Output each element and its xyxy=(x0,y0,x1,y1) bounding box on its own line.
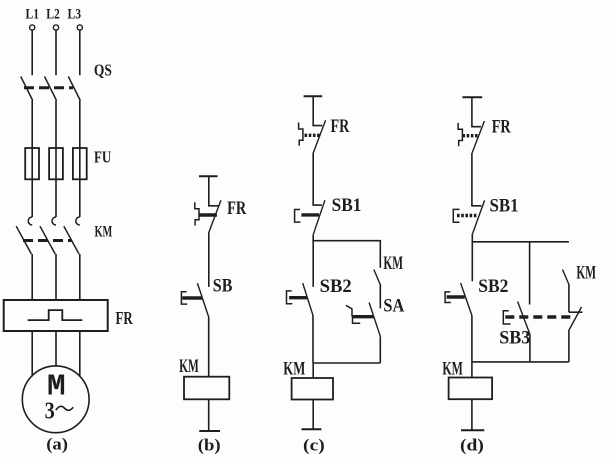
contact FR (c) thermal crank xyxy=(299,123,303,146)
wire L2 top xyxy=(55,30,57,75)
wire (d) right branch lower xyxy=(568,331,570,362)
wire L2 mid xyxy=(55,101,57,218)
button SB2 (c) head xyxy=(287,291,293,304)
switch SA (c) lever stem xyxy=(351,308,353,316)
button SB (b) actuator bar xyxy=(182,296,202,299)
wire (d) top xyxy=(471,97,473,126)
svg-text:KM: KM xyxy=(383,253,403,274)
svg-text:FR: FR xyxy=(331,115,350,137)
thermal relay FR heater symbol xyxy=(28,310,83,320)
wire (d) junction to coil xyxy=(471,362,473,378)
switch QS pole 1 blade xyxy=(21,76,33,100)
switch SA (c) blade xyxy=(369,303,380,337)
contact FR (b) blade xyxy=(209,200,221,232)
button SB1 (d) head xyxy=(453,209,459,222)
svg-text:SB3: SB3 xyxy=(499,327,530,349)
wire (b) bottom xyxy=(208,399,210,431)
svg-text:(a): (a) xyxy=(46,434,68,454)
wire (d) left branch upper xyxy=(471,242,473,281)
contact FR (b) fixed terminal foot xyxy=(209,204,219,206)
svg-text:KM: KM xyxy=(95,223,113,241)
button SB1 (d) fixed terminal foot xyxy=(472,204,482,206)
button SB2 (d) head xyxy=(445,292,451,303)
contact FR (c) fixed terminal foot xyxy=(313,124,322,126)
wire (d) junction bottom horizontal xyxy=(472,361,569,363)
wire L1 mid xyxy=(31,101,33,218)
svg-text:SB1: SB1 xyxy=(332,194,362,215)
contact KM aux (d) blade xyxy=(563,270,569,284)
svg-text:(d): (d) xyxy=(460,436,484,455)
button SB1 (c) blade xyxy=(313,200,325,235)
wire L1 lower xyxy=(31,254,33,300)
wire (d) middle branch lower xyxy=(529,334,531,362)
contact FR (d) actuator bar xyxy=(462,134,478,137)
button SB3 (d) blade xyxy=(518,302,530,335)
wire (c) bottom xyxy=(312,400,314,430)
wire (d) left branch lower xyxy=(471,316,473,362)
contact FR (c) blade xyxy=(313,120,325,152)
motor tilde xyxy=(56,406,73,410)
contactor KM pole 3 fixed contact arc xyxy=(76,217,80,225)
wire (c) junction bottom horizontal xyxy=(313,362,380,364)
coil KM (c) xyxy=(292,378,333,400)
node bottom terminal (d) xyxy=(461,429,484,431)
svg-text:(b): (b) xyxy=(198,435,221,455)
thermal relay FR box xyxy=(4,300,108,331)
node bottom terminal (c) xyxy=(302,428,322,430)
svg-text:FR: FR xyxy=(492,115,511,137)
wire (b) lower xyxy=(208,317,210,377)
wire to motor 1 xyxy=(31,331,33,377)
wire L3 mid xyxy=(79,101,81,218)
button SB2 (d) actuator bar xyxy=(447,295,465,298)
contact FR (c) actuator bar xyxy=(305,134,321,137)
contact FR (b) thermal crank xyxy=(195,202,199,225)
contact FR (d) fixed terminal foot xyxy=(472,125,481,127)
coil KM (b) xyxy=(184,377,229,400)
button SB2 (d) blade xyxy=(461,283,472,316)
svg-text:SB1: SB1 xyxy=(490,194,519,215)
contactor KM pole 1 blade xyxy=(16,226,31,254)
terminal L3 xyxy=(77,25,82,30)
switch SA (c) actuator bar xyxy=(353,315,374,318)
wire (c) junction top horizontal xyxy=(313,241,380,268)
switch QS pole 2 blade xyxy=(45,76,57,100)
contact SB3-NC (d) fixed terminal foot xyxy=(569,311,583,313)
contactor KM pole 2 fixed contact arc xyxy=(52,217,56,225)
fuse FU 3 xyxy=(73,148,87,179)
wire (c) top xyxy=(312,96,314,125)
contactor KM pole 2 blade xyxy=(40,226,55,254)
button SB3 (d) head xyxy=(503,311,510,324)
contact SB3-NC (d) blade xyxy=(569,307,582,331)
contactor KM linkage dashed xyxy=(23,239,72,242)
svg-text:KM: KM xyxy=(576,263,596,284)
terminal L2 xyxy=(53,25,58,30)
svg-text:L1: L1 xyxy=(26,5,40,22)
svg-text:FU: FU xyxy=(94,149,111,167)
wire (c) junction to coil xyxy=(312,363,314,378)
contactor KM pole 1 fixed contact arc xyxy=(28,217,32,225)
button SB1 (d) actuator bar xyxy=(457,214,477,217)
fuse FU 2 xyxy=(49,148,63,179)
node top terminal (c) xyxy=(304,95,323,97)
contactor KM pole 3 blade xyxy=(64,226,79,254)
button SB2 (c) blade xyxy=(303,283,313,315)
wire (d) junction top horizontal xyxy=(472,241,569,243)
wire (c) left branch lower xyxy=(312,316,314,364)
svg-text:L2: L2 xyxy=(46,5,60,22)
button SB (b) head xyxy=(181,292,187,304)
wire to motor 2 xyxy=(55,331,57,366)
contact FR (d) blade xyxy=(472,121,484,153)
switch QS linkage dashed xyxy=(24,86,73,89)
svg-text:QS: QS xyxy=(94,61,112,80)
wire (d) FR to SB1 xyxy=(471,153,473,205)
wire (d) bottom xyxy=(471,399,473,430)
svg-text:3: 3 xyxy=(45,397,55,424)
wire (b) middle xyxy=(208,233,210,287)
switch SA (c) lower hook xyxy=(353,317,361,324)
wire (c) SB1 to junction xyxy=(312,235,314,242)
svg-text:SB2: SB2 xyxy=(478,275,508,296)
wire (d) middle branch upper xyxy=(529,242,531,305)
contact FR (b) actuator bar xyxy=(199,213,217,216)
wire (b) top xyxy=(208,176,210,205)
svg-text:KM: KM xyxy=(283,357,305,379)
node bottom terminal (b) xyxy=(199,430,220,432)
wire (c) right branch between KM and SA xyxy=(379,284,381,309)
switch QS pole 3 blade xyxy=(68,76,80,100)
wire (c) right branch lower xyxy=(379,336,381,363)
button SB2 (c) actuator bar xyxy=(289,296,307,299)
button SB1 (c) fixed terminal foot xyxy=(313,204,322,206)
wire (c) left branch upper xyxy=(312,241,314,287)
svg-text:FR: FR xyxy=(227,197,247,219)
svg-text:KM: KM xyxy=(179,356,199,377)
contact FR (d) thermal crank xyxy=(458,123,462,146)
wire L3 lower xyxy=(79,254,81,300)
motor M circle xyxy=(22,366,89,433)
button SB1 (c) actuator bar xyxy=(301,213,319,216)
wire to motor 3 xyxy=(79,331,81,377)
node top terminal (b) xyxy=(199,175,218,177)
terminal L1 xyxy=(30,25,35,30)
contact KM aux (c) blade xyxy=(374,270,380,284)
svg-text:SA: SA xyxy=(383,294,404,316)
coil KM (d) xyxy=(449,378,493,400)
wire (c) FR to SB1 xyxy=(312,153,314,205)
svg-text:SB2: SB2 xyxy=(320,276,352,297)
wire (d) right branch between KM and SB3 contact xyxy=(568,284,570,313)
button SB1 (d) blade xyxy=(473,200,485,233)
svg-text:L3: L3 xyxy=(68,5,82,22)
wire L2 lower xyxy=(55,254,57,300)
linkage SB3 dashed xyxy=(505,315,574,318)
wire L3 top xyxy=(79,30,81,75)
button SB (b) blade xyxy=(197,283,208,317)
svg-text:KM: KM xyxy=(442,359,463,379)
svg-text:FR: FR xyxy=(116,309,134,329)
fuse FU 1 xyxy=(25,148,39,179)
svg-text:SB: SB xyxy=(213,274,233,296)
node top terminal (d) xyxy=(462,96,482,98)
button SB1 (c) head xyxy=(295,210,301,223)
wire (d) SB1 to junction xyxy=(471,234,473,243)
svg-text:(c): (c) xyxy=(303,436,325,455)
switch SA (c) lever tick xyxy=(346,305,352,308)
wire L1 top xyxy=(31,30,33,75)
